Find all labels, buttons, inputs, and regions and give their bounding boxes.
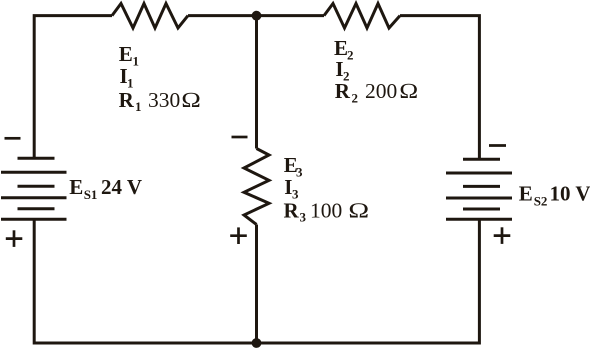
wire between node A and R2 — [257, 14, 325, 17]
battery E_S1 (24 V source) — [1, 158, 67, 219]
svg-text:R: R — [284, 199, 300, 223]
polarity plus of E_S2 — [494, 227, 511, 244]
svg-text:10 V: 10 V — [550, 181, 590, 205]
label E3 — [284, 153, 303, 180]
svg-text:E: E — [69, 175, 83, 199]
svg-text:3: 3 — [296, 165, 303, 180]
svg-text:24 V: 24 V — [101, 175, 142, 199]
label I3 — [284, 175, 299, 202]
resistor R3 — [244, 149, 269, 225]
wire middle branch from node A down to R3 — [255, 16, 258, 149]
polarity plus of E_S1 — [6, 230, 23, 247]
wire bottom-right segment from node B with corner up to battery E_S2 — [257, 219, 480, 343]
svg-text:200: 200 — [365, 79, 397, 103]
resistor R2 — [324, 4, 400, 29]
wire between R1 and node A — [188, 14, 257, 17]
svg-text:1: 1 — [133, 54, 140, 69]
svg-text:100: 100 — [310, 199, 342, 223]
svg-text:S1: S1 — [84, 187, 98, 202]
node B (bottom junction dot) — [252, 338, 262, 348]
svg-text:2: 2 — [352, 91, 359, 106]
svg-text:Ω: Ω — [399, 80, 418, 104]
wire top-left segment with left corner down to battery E_S1 — [34, 16, 112, 159]
resistor R1 — [112, 4, 188, 29]
svg-text:Ω: Ω — [348, 199, 369, 222]
polarity minus of E_S1 — [5, 137, 21, 140]
polarity minus of R3 — [232, 136, 248, 139]
svg-text:2: 2 — [347, 48, 354, 63]
svg-text:330: 330 — [148, 88, 180, 112]
label R2 with value 200 ohm — [335, 79, 419, 106]
label E1 — [119, 42, 139, 69]
svg-text:1: 1 — [135, 99, 142, 114]
label I1 — [120, 64, 134, 91]
polarity plus of R3 — [230, 227, 247, 244]
label R3 with value 100 ohm — [284, 199, 370, 225]
wire top-right segment with right corner down to battery E_S2 — [400, 16, 479, 160]
wire middle branch from R3 down to node B — [255, 225, 258, 344]
label E2 — [334, 36, 354, 63]
svg-text:R: R — [335, 79, 351, 103]
svg-text:E: E — [119, 42, 133, 66]
svg-text:Ω: Ω — [181, 89, 201, 112]
polarity minus of E_S2 — [489, 144, 506, 147]
label E_S2 10 V — [519, 181, 590, 208]
battery E_S2 (10 V source) — [446, 159, 512, 219]
label I2 — [335, 57, 349, 84]
label E_S1 24 V — [69, 175, 142, 202]
svg-text:E: E — [519, 181, 533, 205]
svg-text:3: 3 — [300, 210, 307, 225]
svg-text:R: R — [119, 88, 135, 112]
svg-text:S2: S2 — [534, 193, 548, 208]
node A (top junction dot) — [252, 11, 262, 21]
label R1 with value 330 ohm — [119, 88, 202, 114]
wire from battery E_S1 down with bottom-left corner to node B — [34, 219, 256, 343]
